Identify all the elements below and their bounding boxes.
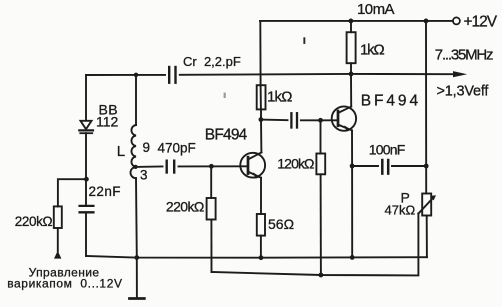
resistor 1k collector Q1	[257, 85, 266, 109]
node junction ground rail at 56R	[259, 255, 264, 260]
node junction rail at right vertical	[424, 19, 429, 24]
node junction Q2 collector / 1k / output	[349, 72, 354, 77]
svg-text:3: 3	[140, 168, 148, 183]
node junction Q2 emitter / 100nF	[350, 164, 355, 169]
resistor 56R	[257, 214, 265, 236]
node junction Q1 collector	[259, 117, 264, 122]
wire 120k bottom lead crossing ground rail	[320, 174, 322, 275]
svg-text:22nF: 22nF	[89, 184, 121, 199]
svg-text:112: 112	[96, 113, 119, 129]
svg-text:120kΩ: 120kΩ	[277, 156, 314, 172]
node junction Q2 base / 120k	[318, 118, 323, 123]
svg-text:варикапом 0...12V: варикапом 0...12V	[7, 277, 122, 291]
svg-text:L: L	[117, 143, 125, 160]
wire tee to left 220k	[58, 179, 87, 206]
resistor 220k varicap feed	[54, 206, 62, 228]
svg-text:10mA: 10mA	[357, 1, 395, 18]
potentiometer P 47k body	[422, 194, 431, 216]
capacitor Cr 2.2pF plates	[169, 67, 175, 83]
wire 56R to ground rail	[260, 236, 262, 258]
node junction 120k on bias line	[319, 273, 324, 278]
wire emitter to ground rail	[351, 166, 353, 257]
wire 470pF to base of Q1	[179, 165, 248, 167]
resistor 1k collector Q2	[347, 32, 356, 63]
node coil tap	[134, 165, 138, 169]
svg-text:Cr 2,2.pF: Cr 2,2.pF	[183, 54, 241, 69]
wire ground rail	[86, 256, 427, 258]
wire left branch down from corner to varicap	[85, 75, 87, 121]
wire long horizontal line right of Cr to output arrow	[180, 73, 454, 76]
wire right vertical rail from +12V down to pot	[425, 21, 427, 194]
wire 1k right bottom lead	[350, 63, 352, 74]
node junction ground rail at coil	[134, 255, 139, 260]
svg-text:1kΩ: 1kΩ	[360, 42, 384, 59]
wire 1k right top lead	[350, 21, 352, 32]
wire coil bottom to ground rail	[135, 178, 138, 257]
transistor Q2 BF494	[332, 106, 356, 131]
wire Q1 emitter down to 56R	[260, 178, 262, 214]
node junction at coil top	[134, 73, 139, 78]
wire Q2 collector up	[350, 74, 352, 107]
wire 1k left bottom lead	[260, 109, 262, 119]
node junction base Q1 / 220k middle	[209, 164, 214, 169]
wire 1k left top lead	[260, 85, 262, 109]
wire 220k middle to bias line	[210, 220, 212, 273]
svg-text:47kΩ: 47kΩ	[385, 203, 416, 218]
wire 120k top lead	[320, 120, 322, 153]
wire top supply rail +12V	[260, 20, 453, 22]
svg-text:+12V: +12V	[464, 13, 498, 30]
inductor L (9 + 3 turns)	[131, 125, 136, 178]
wire down to 220k middle	[210, 166, 212, 198]
resistor 120k	[316, 154, 325, 175]
resistor 220k base bias	[207, 198, 216, 220]
svg-text:9: 9	[143, 140, 151, 155]
terminal +12V	[453, 17, 460, 24]
wire coil tap to 470pF and base	[136, 166, 163, 168]
svg-text:1kΩ: 1kΩ	[267, 89, 292, 106]
node junction rail at 1k right	[349, 19, 354, 24]
svg-text:>1,3Veff: >1,3Veff	[437, 84, 490, 100]
wire 100nF to right rail	[392, 165, 426, 167]
ground symbol	[130, 258, 145, 299]
wire from rail down to left 1k resistor	[259, 21, 261, 85]
transistor Q1 BF494	[240, 152, 265, 178]
capacitor 100nF	[382, 160, 388, 174]
svg-text:56Ω: 56Ω	[268, 216, 294, 232]
svg-text:BF494: BF494	[205, 126, 248, 143]
svg-text:220kΩ: 220kΩ	[166, 199, 204, 215]
node junction varicap / 22nF / 220k	[84, 177, 89, 182]
wire Q1 collector up	[260, 120, 262, 153]
wire 22nF leads	[85, 182, 87, 205]
svg-text:100nF: 100nF	[369, 142, 405, 158]
scan speck near Q2	[303, 37, 305, 44]
potentiometer wiper arrow	[418, 195, 436, 213]
capacitor 22nF	[80, 206, 94, 212]
svg-text:BF494: BF494	[361, 92, 421, 109]
input arrow control voltage	[54, 251, 61, 259]
svg-text:470pF: 470pF	[158, 141, 196, 156]
capacitor interstage coupling	[291, 113, 297, 127]
varicap diode BB112	[79, 121, 93, 179]
svg-text:220kΩ: 220kΩ	[15, 214, 53, 229]
svg-text:7...35MHz: 7...35MHz	[435, 47, 493, 64]
wire 220k to input arrow	[57, 228, 59, 252]
output arrowhead	[453, 71, 467, 77]
scan speck faint	[224, 93, 226, 98]
node junction emitter at ground rail	[350, 255, 355, 260]
wire emitter node to 100nF	[352, 165, 378, 167]
wire pot bottom to ground rail	[426, 216, 428, 258]
wire coil top lead	[135, 75, 137, 125]
node junction right rail / 100nF	[424, 164, 429, 169]
capacitor 470pF	[167, 161, 175, 173]
wire bias bottom line to pot wiper	[212, 214, 419, 276]
wire coupling cap to Q2 base	[301, 119, 338, 121]
wire Q2 emitter down	[351, 130, 353, 166]
wire long horizontal line left of Cr	[86, 74, 165, 76]
wire Q1 collector node to coupling cap	[261, 119, 288, 122]
